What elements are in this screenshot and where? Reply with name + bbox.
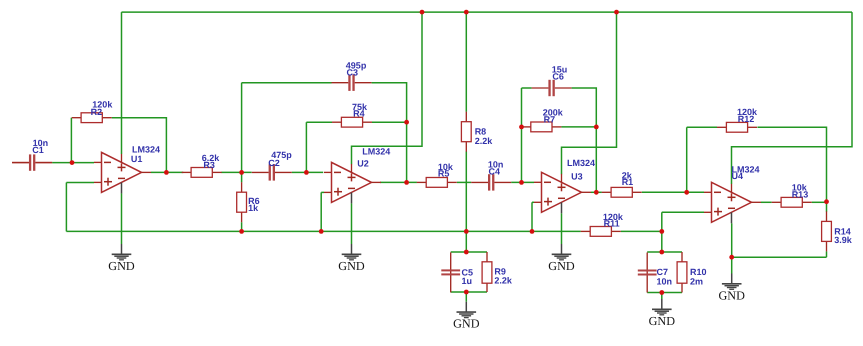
svg-text:U1: U1 — [131, 154, 143, 164]
svg-text:3.9k: 3.9k — [834, 235, 853, 245]
svg-text:GND: GND — [649, 314, 676, 328]
svg-text:10n: 10n — [657, 277, 673, 287]
svg-text:1k: 1k — [248, 203, 259, 213]
svg-text:U3: U3 — [571, 171, 583, 181]
svg-text:GND: GND — [718, 288, 745, 302]
svg-text:2m: 2m — [690, 276, 703, 286]
svg-text:C7: C7 — [657, 267, 669, 277]
svg-text:R1: R1 — [622, 177, 634, 187]
svg-text:LM324: LM324 — [362, 147, 390, 157]
svg-text:R13: R13 — [792, 189, 809, 199]
svg-text:GND: GND — [338, 259, 365, 273]
svg-text:LM324: LM324 — [567, 158, 595, 168]
svg-text:R3: R3 — [203, 160, 215, 170]
svg-text:C1: C1 — [32, 145, 44, 155]
svg-text:1u: 1u — [462, 276, 473, 286]
svg-text:U2: U2 — [357, 159, 369, 169]
svg-text:2.2k: 2.2k — [475, 136, 494, 146]
svg-text:R2: R2 — [91, 107, 103, 117]
svg-text:C2: C2 — [268, 158, 280, 168]
svg-text:GND: GND — [453, 317, 480, 331]
svg-text:C4: C4 — [489, 167, 501, 177]
svg-text:R7: R7 — [544, 115, 556, 125]
svg-text:R5: R5 — [438, 168, 450, 178]
svg-text:GND: GND — [548, 259, 575, 273]
svg-text:R12: R12 — [738, 114, 755, 124]
svg-text:C3: C3 — [347, 68, 359, 78]
svg-text:GND: GND — [108, 259, 135, 273]
svg-text:2.2k: 2.2k — [494, 276, 513, 286]
svg-text:R11: R11 — [604, 219, 620, 229]
svg-text:R4: R4 — [353, 108, 365, 118]
svg-text:U4: U4 — [732, 171, 744, 181]
svg-text:C6: C6 — [552, 72, 564, 82]
